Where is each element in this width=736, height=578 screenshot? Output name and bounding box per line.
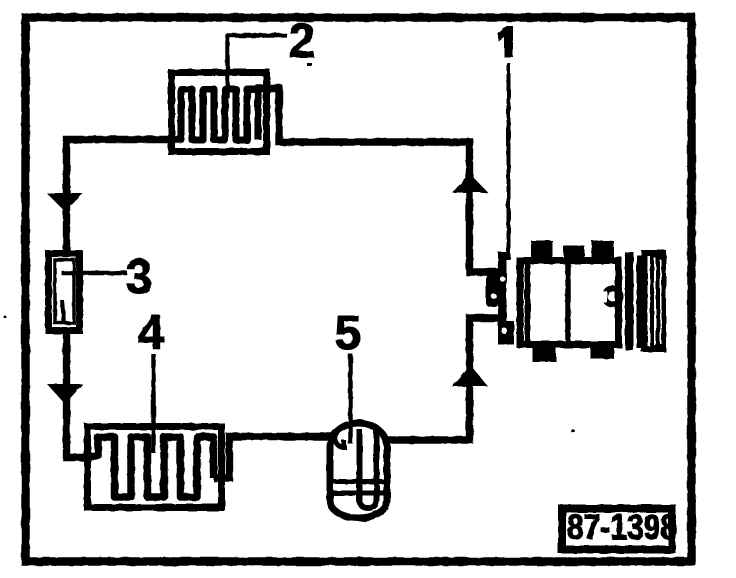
speck [307,63,312,66]
receiver drier (3) outer shell [49,254,80,331]
arrow down (lower left) [47,384,83,404]
speck [4,316,7,319]
leader for 2 [228,36,288,99]
compressor foot 1 [533,344,557,362]
leader for 1 [507,63,511,260]
compressor pulley [641,250,666,352]
condenser (2) body [172,73,267,152]
compressor clutch plate 1 [625,252,634,350]
compressor body divider [565,260,571,344]
compressor top boss 2 [564,246,585,261]
svg-text:5: 5 [335,307,362,360]
condenser coil [170,89,258,140]
accumulator (5) body [330,423,387,518]
svg-text:4: 4 [138,307,165,360]
compressor top boss 1 [531,241,553,261]
accumulator pickup U-tube [360,429,377,508]
reference number box [562,509,672,550]
wire: condenser inlet + left vertical down to receiver/drier [67,140,182,252]
wire: receiver/drier to evaporator [67,333,90,458]
evaporator (4) body [88,427,222,508]
compressor rear hook [605,289,621,305]
receiver drier (3) inner wall [55,260,74,323]
leader for 3 [62,271,127,276]
label 1 [498,26,513,57]
arrow up (upper right) [452,174,488,193]
compressor body [520,261,619,345]
compressor top boss 3 [592,241,614,261]
compressor foot 2 [591,344,615,359]
leader for 4 [151,354,156,453]
accumulator level line 1 [330,479,387,484]
svg-text:87-1398: 87-1398 [567,508,677,547]
wire: condenser outlet to compressor suction port [256,89,499,273]
speck [571,429,575,433]
leader for 5 [348,354,353,444]
accumulator inlet hook [335,436,344,447]
arrow down (upper left) [47,193,83,211]
compressor front plate [498,252,507,345]
receiver drier (3) inner mark [62,300,64,322]
svg-text:2: 2 [289,15,316,68]
compressor port knobs [486,274,499,307]
compressor body line 1 [525,260,531,344]
wire: evaporator outlet to accumulator [214,437,333,479]
evaporator coil [86,437,214,497]
wire: accumulator to compressor inlet [388,318,499,440]
svg-text:3: 3 [126,251,153,304]
compressor clutch plate 2 [637,255,642,348]
arrow up (lower right) [452,365,488,387]
accumulator level line 2 [330,491,387,496]
